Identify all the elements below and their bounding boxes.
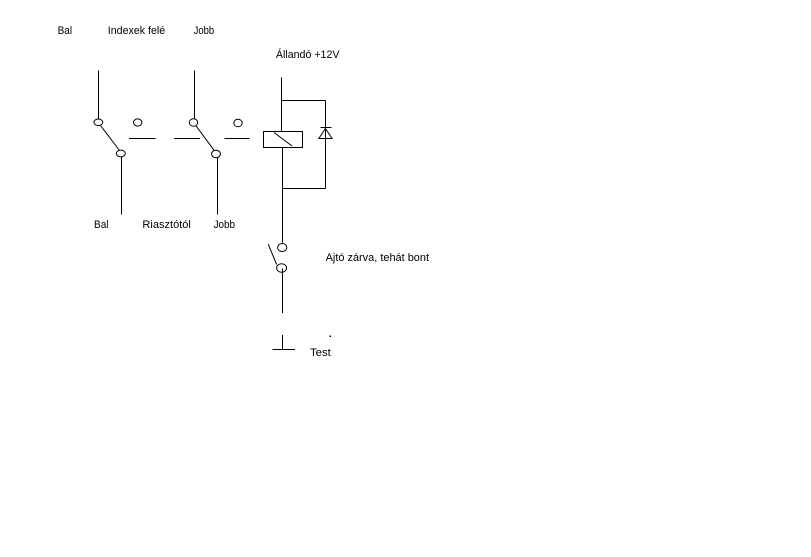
wire SW1 top lead bbox=[98, 71, 100, 119]
ground symbol stem bbox=[282, 335, 284, 350]
stray dot mark bbox=[330, 336, 332, 338]
wire SW3 bottom lead bbox=[282, 269, 284, 314]
SW3 bottom contact circle bbox=[277, 264, 287, 272]
SW2 lever (closed to lower contact) bbox=[196, 126, 215, 151]
wire bottom branch from diode bbox=[283, 188, 326, 190]
switch SW2 (Jobb indicator output) bbox=[174, 71, 250, 215]
SW3 top contact circle bbox=[278, 244, 287, 252]
svg-text:Jobb: Jobb bbox=[214, 219, 235, 231]
svg-text:Jobb: Jobb bbox=[194, 25, 215, 37]
wire SW2 top lead bbox=[194, 71, 196, 119]
SW1 open contact circle bbox=[134, 119, 142, 126]
switch SW1 (Bal indicator output) bbox=[94, 71, 156, 215]
SW1 right contact bar bbox=[129, 138, 156, 140]
svg-text:Bal: Bal bbox=[94, 219, 109, 231]
svg-text:Bal: Bal bbox=[58, 25, 73, 37]
svg-text:Indexek felé: Indexek felé bbox=[108, 25, 165, 37]
SW3 lever (open) bbox=[268, 244, 277, 264]
wire +12V feed (top vertical) bbox=[281, 78, 283, 132]
wire below relay bbox=[282, 148, 284, 189]
SW2 left contact bar bbox=[174, 138, 200, 140]
svg-text:Állandó +12V: Állandó +12V bbox=[276, 48, 340, 61]
wire SW1 bottom lead bbox=[121, 157, 123, 214]
SW1 common contact circle bbox=[94, 119, 103, 126]
wire diode branch (right vertical) bbox=[325, 101, 327, 189]
diode D1 anode triangle bbox=[319, 129, 332, 139]
diode D1 cathode bar bbox=[321, 127, 332, 129]
svg-text:Ajtó zárva, tehát bont: Ajtó zárva, tehát bont bbox=[326, 252, 429, 264]
SW1 lever (closed to lower contact) bbox=[101, 126, 120, 151]
wire relay to door switch bbox=[282, 189, 284, 243]
SW2 lower contact circle bbox=[212, 150, 221, 158]
svg-text:Test: Test bbox=[310, 347, 331, 359]
SW1 lower contact circle bbox=[116, 150, 125, 157]
SW2 common contact circle bbox=[189, 119, 197, 127]
relay K1 coil diagonal bbox=[274, 133, 292, 147]
svg-text:Riasztótól: Riasztótól bbox=[142, 219, 191, 231]
ground symbol bar bbox=[273, 349, 296, 351]
door switch SW3 (open) bbox=[268, 244, 287, 314]
wire top branch to diode bbox=[282, 100, 326, 102]
SW2 right contact bar bbox=[225, 138, 250, 140]
wire SW2 bottom lead bbox=[217, 158, 219, 215]
SW2 open contact circle bbox=[234, 119, 242, 127]
relay K1 coil body bbox=[264, 132, 303, 148]
